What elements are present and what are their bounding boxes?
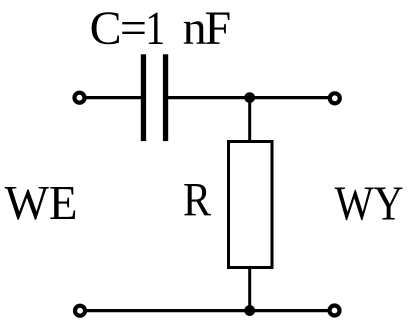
svg-text:R: R xyxy=(183,174,211,227)
wire top-right segment xyxy=(168,96,330,99)
output terminal bottom-right xyxy=(330,306,340,316)
input terminal top-left xyxy=(75,93,85,103)
capacitor C plates xyxy=(141,54,168,141)
junction node bottom xyxy=(244,305,255,316)
wire top-left segment xyxy=(84,96,141,99)
svg-text:C=1nF: C=1nF xyxy=(90,2,232,55)
svg-text:WY: WY xyxy=(335,175,404,230)
output terminal top-right xyxy=(330,93,340,103)
junction node top xyxy=(244,92,255,103)
wire junction to resistor top xyxy=(248,98,251,142)
svg-text:WE: WE xyxy=(5,175,78,230)
wire resistor bottom to junction xyxy=(248,266,251,311)
input terminal bottom-left xyxy=(75,306,85,316)
wire bottom segment xyxy=(84,309,330,312)
resistor R body xyxy=(229,142,273,268)
